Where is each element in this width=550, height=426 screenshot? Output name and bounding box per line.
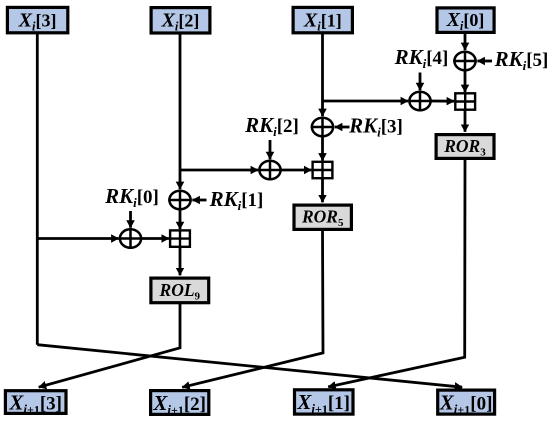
wire ROL9 down, diagonal into Xi+1[3] [39,304,180,387]
modular-add ADD1 [170,230,190,246]
wire Xi[2] down into XOR1 [179,33,182,189]
svg-text:ROR3: ROR3 [443,136,486,159]
input box Xi[1] [293,7,352,33]
xor XOR2 [119,228,143,249]
svg-text:RKi[2]: RKi[2] [244,113,299,139]
svg-text:RKi[5]: RKi[5] [494,47,549,73]
svg-text:RKi[3]: RKi[3] [348,114,403,140]
wire RKi[5] into XOR5 [477,60,492,63]
wire XOR6 into ADD3 [431,100,454,103]
xor XOR1 [168,190,192,211]
modular-add ADD3 [455,93,475,109]
wire ROR5 down, diagonal into Xi+1[2] [182,231,323,387]
wire RKi[4] into XOR6 [419,73,422,91]
output box Xi+1[2] [151,391,209,417]
wire XOR1 into ADD1 [179,210,182,229]
wire ROR3 down, diagonal into Xi+1[1] [328,160,465,387]
wire RKi[1] into XOR1 [192,199,206,202]
output box Xi+1[1] [295,390,354,416]
xor XOR6 [408,91,432,112]
wire RKi[2] into XOR4 [269,140,272,159]
input box Xi[0] [437,8,494,33]
rotation box ROR5 [294,205,351,229]
wire ADD2 into ROR5 [321,178,324,202]
modular-add ADD2 [313,162,333,178]
rotation box ROL9 [151,278,209,303]
input box Xi[2] [151,8,210,34]
wire RKi[3] into XOR3 [335,126,350,129]
wire ADD3 into ROR3 [464,110,467,132]
svg-text:Xi[1]: Xi[1] [303,9,342,33]
wire XOR2 into ADD1 [142,237,169,240]
svg-text:Xi[2]: Xi[2] [161,10,200,34]
rotation box ROR3 [436,135,494,159]
output box Xi+1[0] [438,390,495,416]
svg-text:Xi[3]: Xi[3] [18,9,57,33]
svg-text:ROR5: ROR5 [301,207,344,230]
output box Xi+1[3] [5,390,66,416]
wire Xi[0] down into XOR5 [464,33,467,50]
svg-text:Xi[0]: Xi[0] [446,9,485,33]
wire XOR3 into ADD2 [321,137,324,160]
svg-text:RKi[4]: RKi[4] [394,45,449,71]
wire Xi[3] vertical [36,32,39,345]
svg-text:ROL9: ROL9 [159,280,201,303]
wire Xi[1] branch into XOR6 [323,100,409,103]
xor XOR4 [258,160,282,181]
wire RKi[0] into XOR2 [129,211,132,228]
wire Xi[3] diagonal to Xi+1[0] [37,345,462,388]
wire XOR5 into ADD3 [464,71,467,92]
xor XOR3 [311,117,335,138]
wire XOR4 into ADD2 [281,169,311,172]
wire ADD1 into ROL9 [179,247,182,275]
xor XOR5 [453,51,477,72]
wire Xi[3] branch into XOR2 [37,237,118,240]
svg-text:RKi[0]: RKi[0] [104,184,159,210]
wire Xi[1] down into XOR3 [321,33,324,116]
wire Xi[2] branch into XOR4 [180,169,258,172]
input box Xi[3] [7,7,67,33]
svg-text:RKi[1]: RKi[1] [209,187,264,213]
